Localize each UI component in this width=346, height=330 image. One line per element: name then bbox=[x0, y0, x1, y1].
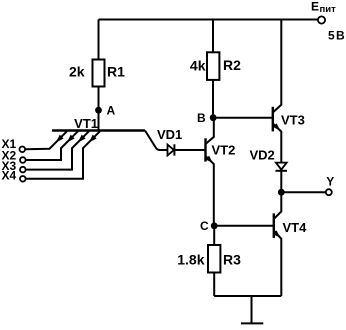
svg-text:VT4: VT4 bbox=[283, 220, 308, 235]
svg-text:A: A bbox=[107, 103, 116, 117]
diode VD1 bbox=[168, 144, 175, 155]
label R3 bbox=[223, 251, 241, 267]
wire: R3 to ground rail bbox=[213, 273, 215, 297]
VT1 emitter 3 wire to X3 bbox=[26, 131, 89, 169]
wire: output node to terminal Y bbox=[281, 191, 326, 193]
svg-text:5: 5 bbox=[328, 28, 335, 42]
wire: VD2 to output node bbox=[280, 171, 282, 192]
label R1 bbox=[107, 63, 125, 79]
svg-text:4k: 4k bbox=[190, 58, 206, 74]
svg-text:VD2: VD2 bbox=[250, 148, 275, 163]
label X2 bbox=[2, 149, 17, 163]
wire: rail to R2 bbox=[212, 20, 214, 53]
label VT4 bbox=[283, 220, 308, 235]
output terminal Y bbox=[326, 189, 332, 195]
svg-text:R2: R2 bbox=[223, 57, 241, 73]
VT1 emitter 4 wire to X4 bbox=[26, 131, 100, 179]
svg-text:X4: X4 bbox=[2, 169, 17, 183]
transistor VT2 bbox=[205, 118, 214, 226]
label VD1 bbox=[157, 127, 182, 142]
value label 4k bbox=[190, 58, 206, 74]
svg-text:R3: R3 bbox=[223, 251, 241, 267]
value label 1.8k bbox=[177, 251, 204, 267]
label node C bbox=[200, 219, 209, 233]
label R2 bbox=[223, 57, 241, 73]
svg-text:C: C bbox=[200, 219, 209, 233]
VT1 emitter 2 wire to X2 bbox=[26, 131, 78, 160]
label VD2 bbox=[250, 148, 275, 163]
wire: node C to R3 bbox=[213, 226, 215, 245]
transistor VT1 multi-emitter base bar bbox=[52, 129, 145, 131]
value label 2k bbox=[69, 64, 85, 80]
wire: +5V top supply rail bbox=[99, 19, 319, 21]
svg-text:VD1: VD1 bbox=[157, 127, 182, 142]
label VT3 bbox=[281, 112, 305, 127]
node A junction dot bbox=[95, 107, 102, 114]
svg-text:2k: 2k bbox=[69, 64, 85, 80]
wire: node C to VT4 base bbox=[214, 225, 273, 227]
label VT1 bbox=[74, 116, 98, 131]
label node A bbox=[107, 103, 116, 117]
input terminal X4 bbox=[20, 176, 26, 182]
wire: R2 to node B bbox=[212, 80, 214, 118]
svg-text:Y: Y bbox=[326, 174, 334, 188]
input terminal X1 bbox=[20, 147, 26, 153]
label X1 bbox=[2, 137, 17, 151]
label node B bbox=[197, 111, 206, 125]
transistor VT4 bbox=[273, 192, 282, 296]
label VT2 bbox=[212, 143, 236, 158]
label 5 В bbox=[328, 28, 345, 42]
svg-text:1.8k: 1.8k bbox=[177, 251, 204, 267]
input terminal X2 bbox=[20, 157, 26, 163]
diode VD2 bbox=[276, 163, 288, 171]
node B junction dot bbox=[210, 114, 217, 121]
ground symbol bbox=[241, 296, 263, 323]
svg-text:VT2: VT2 bbox=[212, 143, 236, 158]
wire: VD1 to VT2 base bbox=[174, 149, 204, 151]
wire: rail to R1 bbox=[98, 20, 100, 60]
label X3 bbox=[2, 159, 17, 173]
resistor R2 bbox=[207, 52, 219, 80]
wire: bottom ground rail bbox=[214, 295, 281, 297]
output junction dot bbox=[278, 189, 285, 196]
VT1 collector wire to VD1 bbox=[145, 131, 167, 151]
wire: R1 to VT1 base bbox=[98, 87, 100, 131]
svg-text:пит: пит bbox=[320, 4, 337, 15]
svg-text:Е: Е bbox=[311, 0, 319, 14]
wire: node B to VT3 base bbox=[213, 117, 272, 119]
svg-text:VT3: VT3 bbox=[281, 112, 305, 127]
resistor R3 bbox=[208, 245, 220, 273]
VT1 emitter 1 wire to X1 bbox=[25, 131, 67, 149]
label X4 bbox=[2, 169, 17, 183]
input terminal X3 bbox=[20, 167, 26, 173]
label Епит bbox=[311, 0, 336, 15]
node C junction dot bbox=[211, 222, 218, 229]
transistor VT3 bbox=[273, 20, 282, 163]
power terminal Епит bbox=[318, 16, 325, 23]
svg-text:VT1: VT1 bbox=[74, 116, 98, 131]
resistor R1 bbox=[93, 60, 105, 87]
label Y bbox=[326, 174, 334, 188]
svg-text:R1: R1 bbox=[107, 63, 125, 79]
svg-text:В: В bbox=[336, 28, 345, 42]
svg-text:B: B bbox=[197, 111, 206, 125]
